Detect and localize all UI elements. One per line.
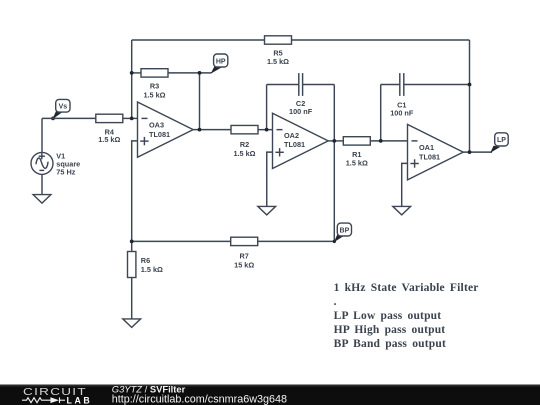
wire C2 left vertical — [266, 85, 268, 130]
wire Vs row left — [42, 117, 96, 119]
junction dot C1 right — [468, 83, 472, 87]
junction dot OA2 output — [332, 139, 336, 143]
wire R6 top lead — [131, 241, 133, 251]
junction dot OA3 minus input — [130, 117, 134, 121]
capacitor C2 — [267, 73, 335, 116]
svg-text:BP Band pass output: BP Band pass output — [334, 338, 446, 350]
wire R6 bottom lead — [131, 278, 133, 319]
junction dot OA1 output — [468, 150, 472, 154]
wire R3 left lead — [132, 72, 141, 74]
wire OA1 plus input down — [402, 163, 408, 206]
svg-text:LP: LP — [497, 137, 506, 144]
svg-text:R2: R2 — [240, 140, 249, 149]
svg-text:OA3: OA3 — [149, 121, 164, 130]
wire R3 right lead to HP stub — [168, 72, 212, 74]
resistor R2 — [231, 125, 258, 157]
svg-text:http://circuitlab.com/csnmra6w: http://circuitlab.com/csnmra6w3g648 — [112, 393, 287, 405]
ground below R6 — [123, 319, 141, 328]
svg-text:100 nF: 100 nF — [289, 107, 313, 116]
resistor R6 — [128, 252, 164, 278]
resistor R5 — [265, 36, 292, 66]
wire V1 top lead — [41, 118, 43, 152]
op-amp OA1 — [408, 124, 464, 179]
svg-text:100 nF: 100 nF — [390, 109, 414, 118]
wire OA1 output to LP — [463, 151, 492, 153]
junction dot OA2 minus input — [265, 128, 269, 132]
wire V1 bottom lead — [41, 174, 43, 194]
svg-text:R7: R7 — [240, 252, 249, 261]
svg-text:R1: R1 — [352, 150, 361, 159]
annotation title text — [334, 282, 479, 350]
svg-text:1.5 kΩ: 1.5 kΩ — [98, 135, 120, 144]
svg-text:R6: R6 — [141, 256, 150, 265]
svg-text:1 kHz State Variable Filter: 1 kHz State Variable Filter — [334, 282, 479, 294]
wire OA2 output to R1 — [328, 140, 343, 142]
wire OA3 output to R2 — [193, 129, 231, 131]
svg-text:BP: BP — [340, 227, 350, 234]
wire top feedback right segment — [292, 39, 470, 41]
junction dot OA1 minus input — [379, 139, 383, 143]
wire left feedback vertical — [131, 40, 133, 118]
svg-text:TL081: TL081 — [149, 130, 170, 139]
svg-text:1.5 kΩ: 1.5 kΩ — [346, 159, 368, 168]
svg-text:TL081: TL081 — [419, 152, 440, 161]
wire C1 left vertical — [380, 85, 382, 141]
capacitor C1 — [381, 73, 470, 117]
svg-text:15 kΩ: 15 kΩ — [234, 261, 254, 270]
op-amp OA3 — [138, 102, 194, 157]
svg-text:TL081: TL081 — [284, 140, 305, 149]
wire top feedback left segment — [132, 39, 265, 41]
junction dot R6 R7 — [130, 240, 134, 244]
svg-text:1.5 kΩ: 1.5 kΩ — [233, 149, 255, 158]
svg-text:1.5 kΩ: 1.5 kΩ — [267, 57, 289, 66]
node LP — [490, 133, 508, 153]
node BP — [333, 223, 352, 243]
wire OA2 plus input down — [267, 152, 273, 206]
svg-text:HP High pass output: HP High pass output — [334, 324, 446, 336]
node HP — [211, 54, 228, 74]
svg-text:1.5 kΩ: 1.5 kΩ — [143, 90, 165, 99]
resistor R7 — [231, 237, 258, 269]
wire HP node vertical — [199, 73, 201, 130]
resistor R1 — [343, 137, 370, 168]
svg-text:LAB: LAB — [67, 395, 93, 405]
node Vs — [51, 99, 70, 120]
wire R7 left lead — [132, 240, 231, 242]
wire R2 to OA2 minus — [258, 129, 273, 131]
svg-text:.: . — [334, 296, 337, 308]
wire R4 to OA3 minus input — [123, 117, 138, 119]
resistor R4 — [96, 114, 123, 144]
junction dot HP node — [198, 71, 202, 75]
wire BP vertical from OA2 output — [333, 85, 335, 242]
wire R1 to OA1 minus — [370, 140, 407, 142]
CircuitLab logo resistor and diode — [22, 397, 65, 403]
footer bar — [0, 384, 540, 405]
svg-text:OA2: OA2 — [284, 131, 299, 140]
wire OA3 plus input down — [132, 141, 138, 242]
svg-text:LP Low pass output: LP Low pass output — [334, 310, 442, 322]
junction dot OA3 output — [198, 128, 202, 132]
svg-text:75 Hz: 75 Hz — [56, 168, 75, 177]
ground below OA1 — [393, 206, 411, 215]
wire right feedback vertical — [469, 40, 471, 152]
resistor R3 — [141, 69, 168, 100]
svg-text:1.5 kΩ: 1.5 kΩ — [141, 265, 163, 274]
svg-text:Vs: Vs — [59, 104, 68, 111]
op-amp OA2 — [273, 113, 329, 168]
junction dot R3 left — [130, 71, 134, 75]
svg-text:HP: HP — [216, 58, 226, 65]
ground below V1 — [33, 195, 51, 204]
svg-text:OA1: OA1 — [419, 143, 434, 152]
svg-text:R3: R3 — [150, 81, 159, 90]
ground below OA2 — [258, 206, 276, 215]
voltage source V1 — [31, 151, 80, 176]
wire BP row from R7 to BP node — [258, 240, 335, 242]
